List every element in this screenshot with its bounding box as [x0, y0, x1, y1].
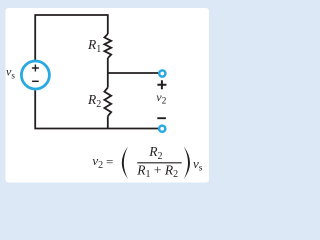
svg-text:=: =: [106, 154, 113, 169]
equation left paren: [122, 147, 128, 180]
source plus sign: [32, 65, 39, 72]
wire top loop: [35, 15, 108, 60]
white panel: [6, 8, 210, 183]
wire bottom rail: [35, 90, 158, 128]
resistor R2: [104, 88, 111, 117]
plus sign at terminal: [157, 80, 166, 89]
equation right paren: [184, 147, 190, 180]
voltage source vs circle: [21, 61, 49, 89]
wire node to top terminal: [108, 72, 159, 74]
minus sign at terminal: [157, 117, 166, 119]
wire node to R2: [107, 73, 109, 88]
wire R1 to node: [107, 58, 109, 73]
terminal bottom: [159, 126, 165, 132]
source minus sign: [32, 80, 39, 82]
resistor R1: [104, 34, 111, 58]
terminal top: [159, 70, 165, 76]
wire R2 to bottom rail: [107, 116, 109, 128]
equation fraction bar: [137, 162, 182, 164]
